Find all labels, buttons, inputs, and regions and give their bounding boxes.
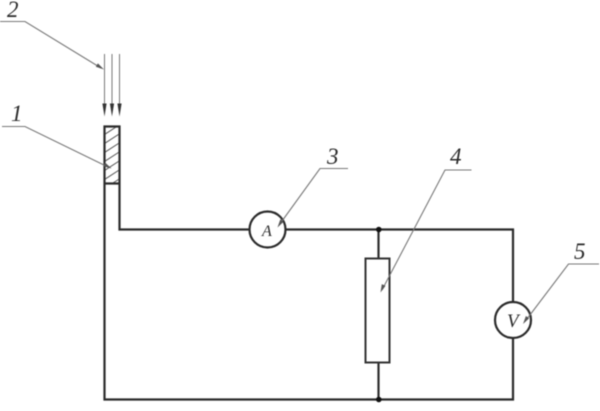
photocell P1 hatch fill <box>96 118 130 203</box>
node junction bottom of resistor <box>376 397 382 403</box>
svg-text:4: 4 <box>450 144 462 169</box>
resistor R1 <box>366 259 390 363</box>
leader line label 1 <box>2 127 112 169</box>
svg-text:2: 2 <box>7 0 19 22</box>
light ray middle <box>110 54 114 117</box>
svg-text:5: 5 <box>574 239 586 264</box>
wire resistor branch <box>377 230 379 400</box>
light ray right <box>117 54 121 117</box>
node junction top of resistor <box>376 227 382 233</box>
svg-text:A: A <box>261 223 272 240</box>
leader line label 5 <box>523 264 599 324</box>
leader line label 2 <box>0 22 104 70</box>
light ray left <box>102 54 106 117</box>
svg-text:1: 1 <box>11 101 23 126</box>
leader line label 4 <box>381 170 472 293</box>
leader line label 3 <box>278 169 349 228</box>
ammeter A (3) <box>250 212 286 248</box>
svg-text:3: 3 <box>326 144 339 169</box>
wire circuit loop <box>105 127 514 400</box>
photocell P1 bottom edge <box>104 182 121 184</box>
voltmeter V (5) <box>495 302 531 338</box>
